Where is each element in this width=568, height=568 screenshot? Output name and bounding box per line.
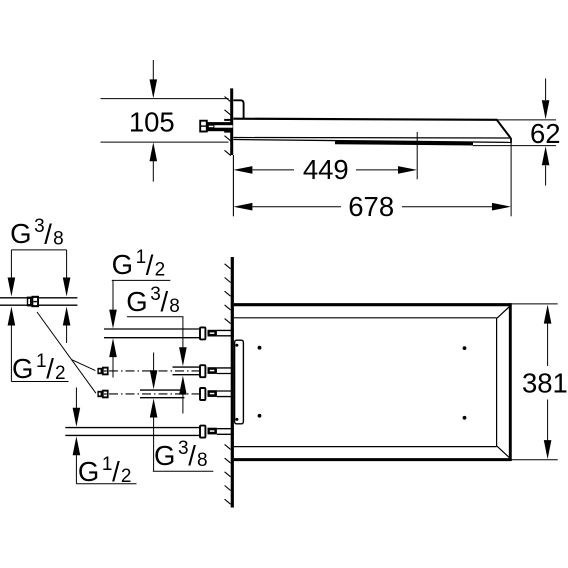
svg-text:G: G	[78, 456, 99, 487]
svg-text:3: 3	[150, 284, 161, 305]
svg-text:8: 8	[169, 296, 180, 317]
svg-text:105: 105	[129, 107, 175, 138]
svg-text:2: 2	[121, 466, 132, 487]
svg-text:3: 3	[34, 216, 45, 237]
svg-text:8: 8	[53, 228, 64, 249]
svg-text:/: /	[44, 218, 52, 249]
svg-text:G: G	[154, 440, 175, 471]
svg-text:G: G	[126, 286, 147, 317]
svg-text:G: G	[12, 353, 33, 384]
svg-text:2: 2	[55, 363, 66, 384]
svg-text:G: G	[10, 218, 31, 249]
svg-text:/: /	[146, 249, 154, 280]
svg-text:/: /	[161, 286, 169, 317]
svg-text:/: /	[112, 456, 120, 487]
svg-text:/: /	[46, 353, 54, 384]
svg-text:8: 8	[197, 450, 208, 471]
svg-text:449: 449	[303, 154, 349, 185]
svg-text:62: 62	[530, 118, 561, 149]
svg-text:3: 3	[178, 438, 189, 459]
svg-text:381: 381	[522, 368, 568, 399]
svg-text:1: 1	[102, 454, 113, 475]
svg-text:G: G	[112, 249, 133, 280]
svg-text:1: 1	[36, 351, 47, 372]
svg-text:2: 2	[155, 259, 166, 280]
svg-text:/: /	[188, 440, 196, 471]
svg-text:678: 678	[348, 191, 394, 222]
svg-text:1: 1	[136, 247, 147, 268]
